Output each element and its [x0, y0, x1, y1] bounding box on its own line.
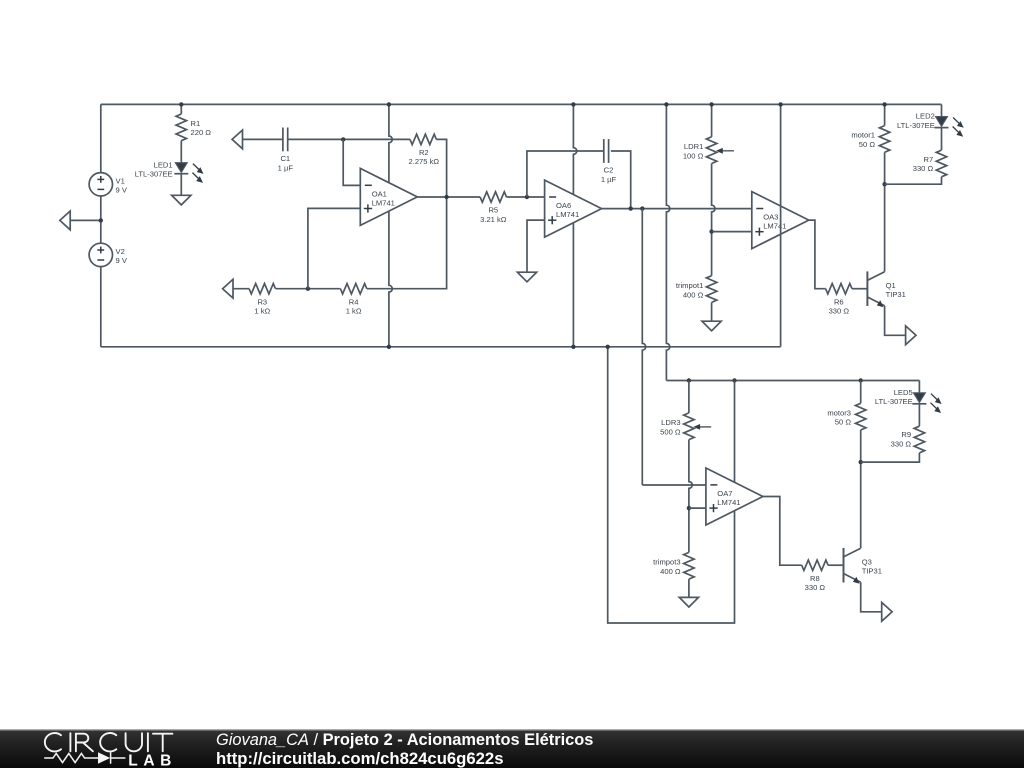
capacitor C2 1uF [603, 139, 605, 163]
svg-text:R7: R7 [923, 155, 933, 164]
svg-text:OA3: OA3 [763, 213, 778, 222]
wire Q3 collector up to motor3 R9 node [860, 462, 862, 548]
vertical wire OA6 output down to OA7 inverting input [642, 209, 645, 485]
transistor Q1 TIP31 [866, 271, 868, 306]
wire Q1 collector up to motor1 R7 node [884, 184, 886, 272]
wire bottom rail [101, 346, 781, 348]
svg-text:TIP31: TIP31 [886, 290, 906, 299]
svg-text:LM741: LM741 [372, 198, 395, 207]
LDR3 500 photoresistor [688, 381, 690, 413]
LED LED2 branch with R7 [941, 104, 943, 116]
svg-text:330 Ω: 330 Ω [805, 583, 826, 592]
LED LED1 LTL-307EE [175, 163, 187, 173]
svg-text:OA6: OA6 [556, 201, 571, 210]
svg-text:9 V: 9 V [116, 256, 128, 265]
node junction V1 V2 midpoint [99, 218, 103, 222]
wire lower circuit top rail [666, 380, 919, 382]
footer bar [0, 730, 1024, 769]
vertical bus x666 from top rail to lower circuit rail [666, 104, 669, 380]
svg-text:LM741: LM741 [763, 222, 786, 231]
wire down to OA1 inverting input [343, 139, 360, 185]
svg-text:OA7: OA7 [717, 489, 732, 498]
resistor R4 1k [340, 284, 366, 294]
wire R3 to R4 node [276, 288, 341, 290]
motor3 50 branch [860, 381, 862, 404]
svg-text:400 Ω: 400 Ω [683, 291, 704, 300]
svg-text:1 kΩ: 1 kΩ [346, 307, 362, 316]
LDR1 100 photoresistor [711, 104, 713, 136]
motor1 50 branch [884, 104, 886, 125]
svg-text:LED2: LED2 [916, 112, 935, 121]
wire C2 right leg down to OA6 output [611, 151, 631, 209]
ground below trimpot1 [702, 321, 721, 331]
svg-text:50 Ω: 50 Ω [835, 418, 852, 427]
terminal input at C1 [232, 130, 242, 149]
svg-text:2.275 kΩ: 2.275 kΩ [409, 157, 440, 166]
LED LED5 branch with R9 [918, 381, 920, 393]
svg-text:R5: R5 [488, 206, 498, 215]
svg-text:LTL-307EE: LTL-307EE [875, 397, 913, 406]
voltage source V1 [89, 173, 112, 196]
svg-text:LM741: LM741 [717, 498, 740, 507]
svg-text:R1: R1 [191, 119, 201, 128]
wire OA3 output to R6 [809, 220, 826, 289]
wire C1 to R2 and inverting input node [288, 138, 410, 140]
wire OA6 output to OA3 inverting input [602, 208, 752, 210]
svg-text:C1: C1 [280, 154, 290, 163]
svg-text:R9: R9 [901, 430, 911, 439]
wire LDR3 down to trimpot3 with hop over OA7 minus wire [689, 440, 692, 553]
svg-text:9 V: 9 V [116, 186, 128, 195]
svg-text:OA1: OA1 [372, 190, 387, 199]
trimpot3 400 [684, 552, 694, 579]
svg-text:50 Ω: 50 Ω [859, 140, 876, 149]
svg-text:V1: V1 [116, 176, 125, 185]
vertical bus x781 bottom rail to top rail [780, 104, 782, 346]
svg-text:trimpot1: trimpot1 [676, 281, 703, 290]
resistor R2 2.275k feedback [410, 134, 436, 144]
svg-text:1 kΩ: 1 kΩ [254, 307, 270, 316]
svg-text:220 Ω: 220 Ω [191, 128, 212, 137]
ground below LED1 [172, 195, 191, 205]
svg-text:Q1: Q1 [886, 281, 896, 290]
svg-text:LDR3: LDR3 [661, 418, 680, 427]
resistor R5 3.21k [480, 192, 506, 202]
wire Q3 emitter to output terminal [861, 582, 882, 612]
svg-text:motor3: motor3 [827, 408, 851, 417]
wire R2 right leg down to OA1 output [436, 139, 446, 197]
svg-text:330 Ω: 330 Ω [829, 307, 850, 316]
terminal input at R3 [223, 279, 233, 298]
resistor R9 330 [914, 426, 924, 453]
svg-text:100 Ω: 100 Ω [683, 151, 704, 160]
svg-text:LM741: LM741 [556, 210, 579, 219]
vertical wire left bus x389 with hops [389, 104, 392, 346]
ground below trimpot3 [679, 597, 698, 607]
svg-text:LAB: LAB [128, 753, 177, 768]
op-amp OA3 LM741 [752, 192, 809, 249]
svg-text:R4: R4 [349, 297, 359, 306]
svg-text:1 µF: 1 µF [278, 164, 294, 173]
terminal input left of V1 V2 [70, 219, 101, 221]
svg-text:R8: R8 [810, 574, 820, 583]
svg-text:trimpot3: trimpot3 [653, 558, 680, 567]
svg-text:motor1: motor1 [851, 131, 875, 140]
ground below OA6 [517, 272, 536, 282]
svg-text:R2: R2 [419, 148, 429, 157]
svg-text:LED1: LED1 [154, 161, 173, 170]
svg-text:LTL-307EE: LTL-307EE [897, 121, 935, 130]
resistor R1 220 [180, 104, 182, 114]
wire to OA3 non-inverting input [712, 231, 752, 233]
svg-text:330 Ω: 330 Ω [913, 164, 934, 173]
svg-text:1 µF: 1 µF [601, 175, 617, 184]
wire Q1 emitter to output terminal [885, 306, 906, 336]
voltage source V2 [89, 243, 112, 266]
resistor R8 330 [802, 560, 828, 570]
svg-text:Q3: Q3 [862, 558, 872, 567]
svg-text:LED5: LED5 [894, 388, 913, 397]
wire up to OA1 non-inverting input [308, 208, 360, 288]
resistor R3 1k [249, 284, 275, 294]
svg-text:http://circuitlab.com/ch824cu6: http://circuitlab.com/ch824cu6g622s [216, 749, 504, 768]
CircuitLab logo CIRCUIT drawn letters [45, 733, 173, 751]
wire R4 right leg up to OA1 output [367, 197, 447, 289]
wire top supply rail [101, 103, 942, 105]
wire LDR1 down to trimpot1 with hop [712, 164, 715, 276]
svg-text:330 Ω: 330 Ω [891, 439, 912, 448]
svg-text:LDR1: LDR1 [684, 142, 703, 151]
svg-text:Giovana_CA / Projeto 2 - Acion: Giovana_CA / Projeto 2 - Acionamentos El… [216, 731, 593, 749]
logo resistor-diode symbol [44, 752, 125, 763]
transistor Q3 TIP31 [843, 548, 845, 583]
svg-text:V2: V2 [116, 247, 125, 256]
op-amp OA7 LM741 [706, 468, 763, 525]
wire OA6 plus input to ground [527, 220, 545, 272]
vertical wire bus x573 with hop at C2 wire [573, 104, 576, 346]
svg-text:C2: C2 [604, 166, 614, 175]
svg-text:R6: R6 [834, 297, 844, 306]
svg-text:400 Ω: 400 Ω [660, 567, 681, 576]
wire to OA7 non-inverting input [689, 507, 706, 509]
svg-text:R3: R3 [257, 297, 267, 306]
wire OA1 output to OA6 inverting input with R5 [417, 196, 480, 198]
wire up from R5 node to C2 [527, 151, 604, 197]
svg-text:500 Ω: 500 Ω [660, 428, 681, 437]
op-amp OA6 LM741 [545, 180, 602, 237]
svg-text:3.21 kΩ: 3.21 kΩ [480, 215, 507, 224]
wire left column with V1 V2 [100, 104, 102, 172]
svg-text:TIP31: TIP31 [862, 566, 882, 575]
resistor R7 330 [936, 150, 946, 177]
wire OA7 output to R8 [763, 497, 802, 566]
resistor R6 330 [826, 284, 852, 294]
wire from bottom rail down around lower circuit [608, 347, 735, 623]
trimpot1 400 [706, 276, 716, 303]
capacitor C1 1uF [282, 128, 284, 152]
op-amp OA1 LM741 [360, 168, 417, 225]
svg-text:LTL-307EE: LTL-307EE [135, 170, 173, 179]
